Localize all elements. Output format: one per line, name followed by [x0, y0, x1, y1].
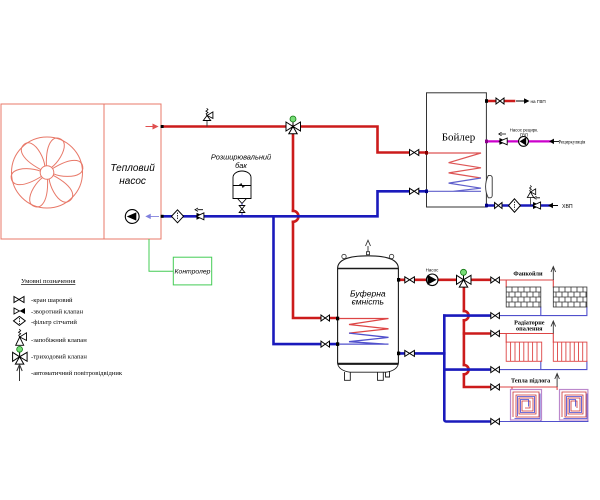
- svg-text:-кран шаровий: -кран шаровий: [31, 297, 73, 304]
- svg-text:на ГВП: на ГВП: [531, 99, 546, 104]
- svg-text:-триходовий клапан: -триходовий клапан: [31, 354, 87, 361]
- svg-text:насос: насос: [119, 176, 146, 187]
- svg-text:Бойлер: Бойлер: [442, 132, 476, 144]
- svg-text:опалення: опалення: [516, 325, 543, 332]
- svg-text:Тепловий: Тепловий: [110, 163, 155, 174]
- svg-text:ХВП: ХВП: [562, 204, 573, 210]
- svg-text:Фанкойли: Фанкойли: [513, 271, 543, 278]
- svg-text:бак: бак: [235, 161, 247, 170]
- svg-text:-автоматичний повітровідвідни: -автоматичний повітровідвідник: [31, 370, 123, 377]
- svg-text:-зворотний клапан: -зворотний клапан: [31, 309, 84, 316]
- svg-text:-запобіжний клапан: -запобіжний клапан: [31, 337, 87, 344]
- svg-text:Насос: Насос: [426, 268, 440, 273]
- svg-text:Контролер: Контролер: [175, 269, 211, 276]
- svg-text:Тепла підлога: Тепла підлога: [511, 378, 550, 385]
- svg-text:ємність: ємність: [352, 297, 384, 307]
- svg-text:ГВП: ГВП: [520, 132, 528, 137]
- svg-text:Рециркуляція: Рециркуляція: [559, 140, 587, 145]
- svg-text:-фільтр сітчатий: -фільтр сітчатий: [31, 319, 77, 326]
- svg-text:Умовні позначення: Умовні позначення: [21, 278, 75, 285]
